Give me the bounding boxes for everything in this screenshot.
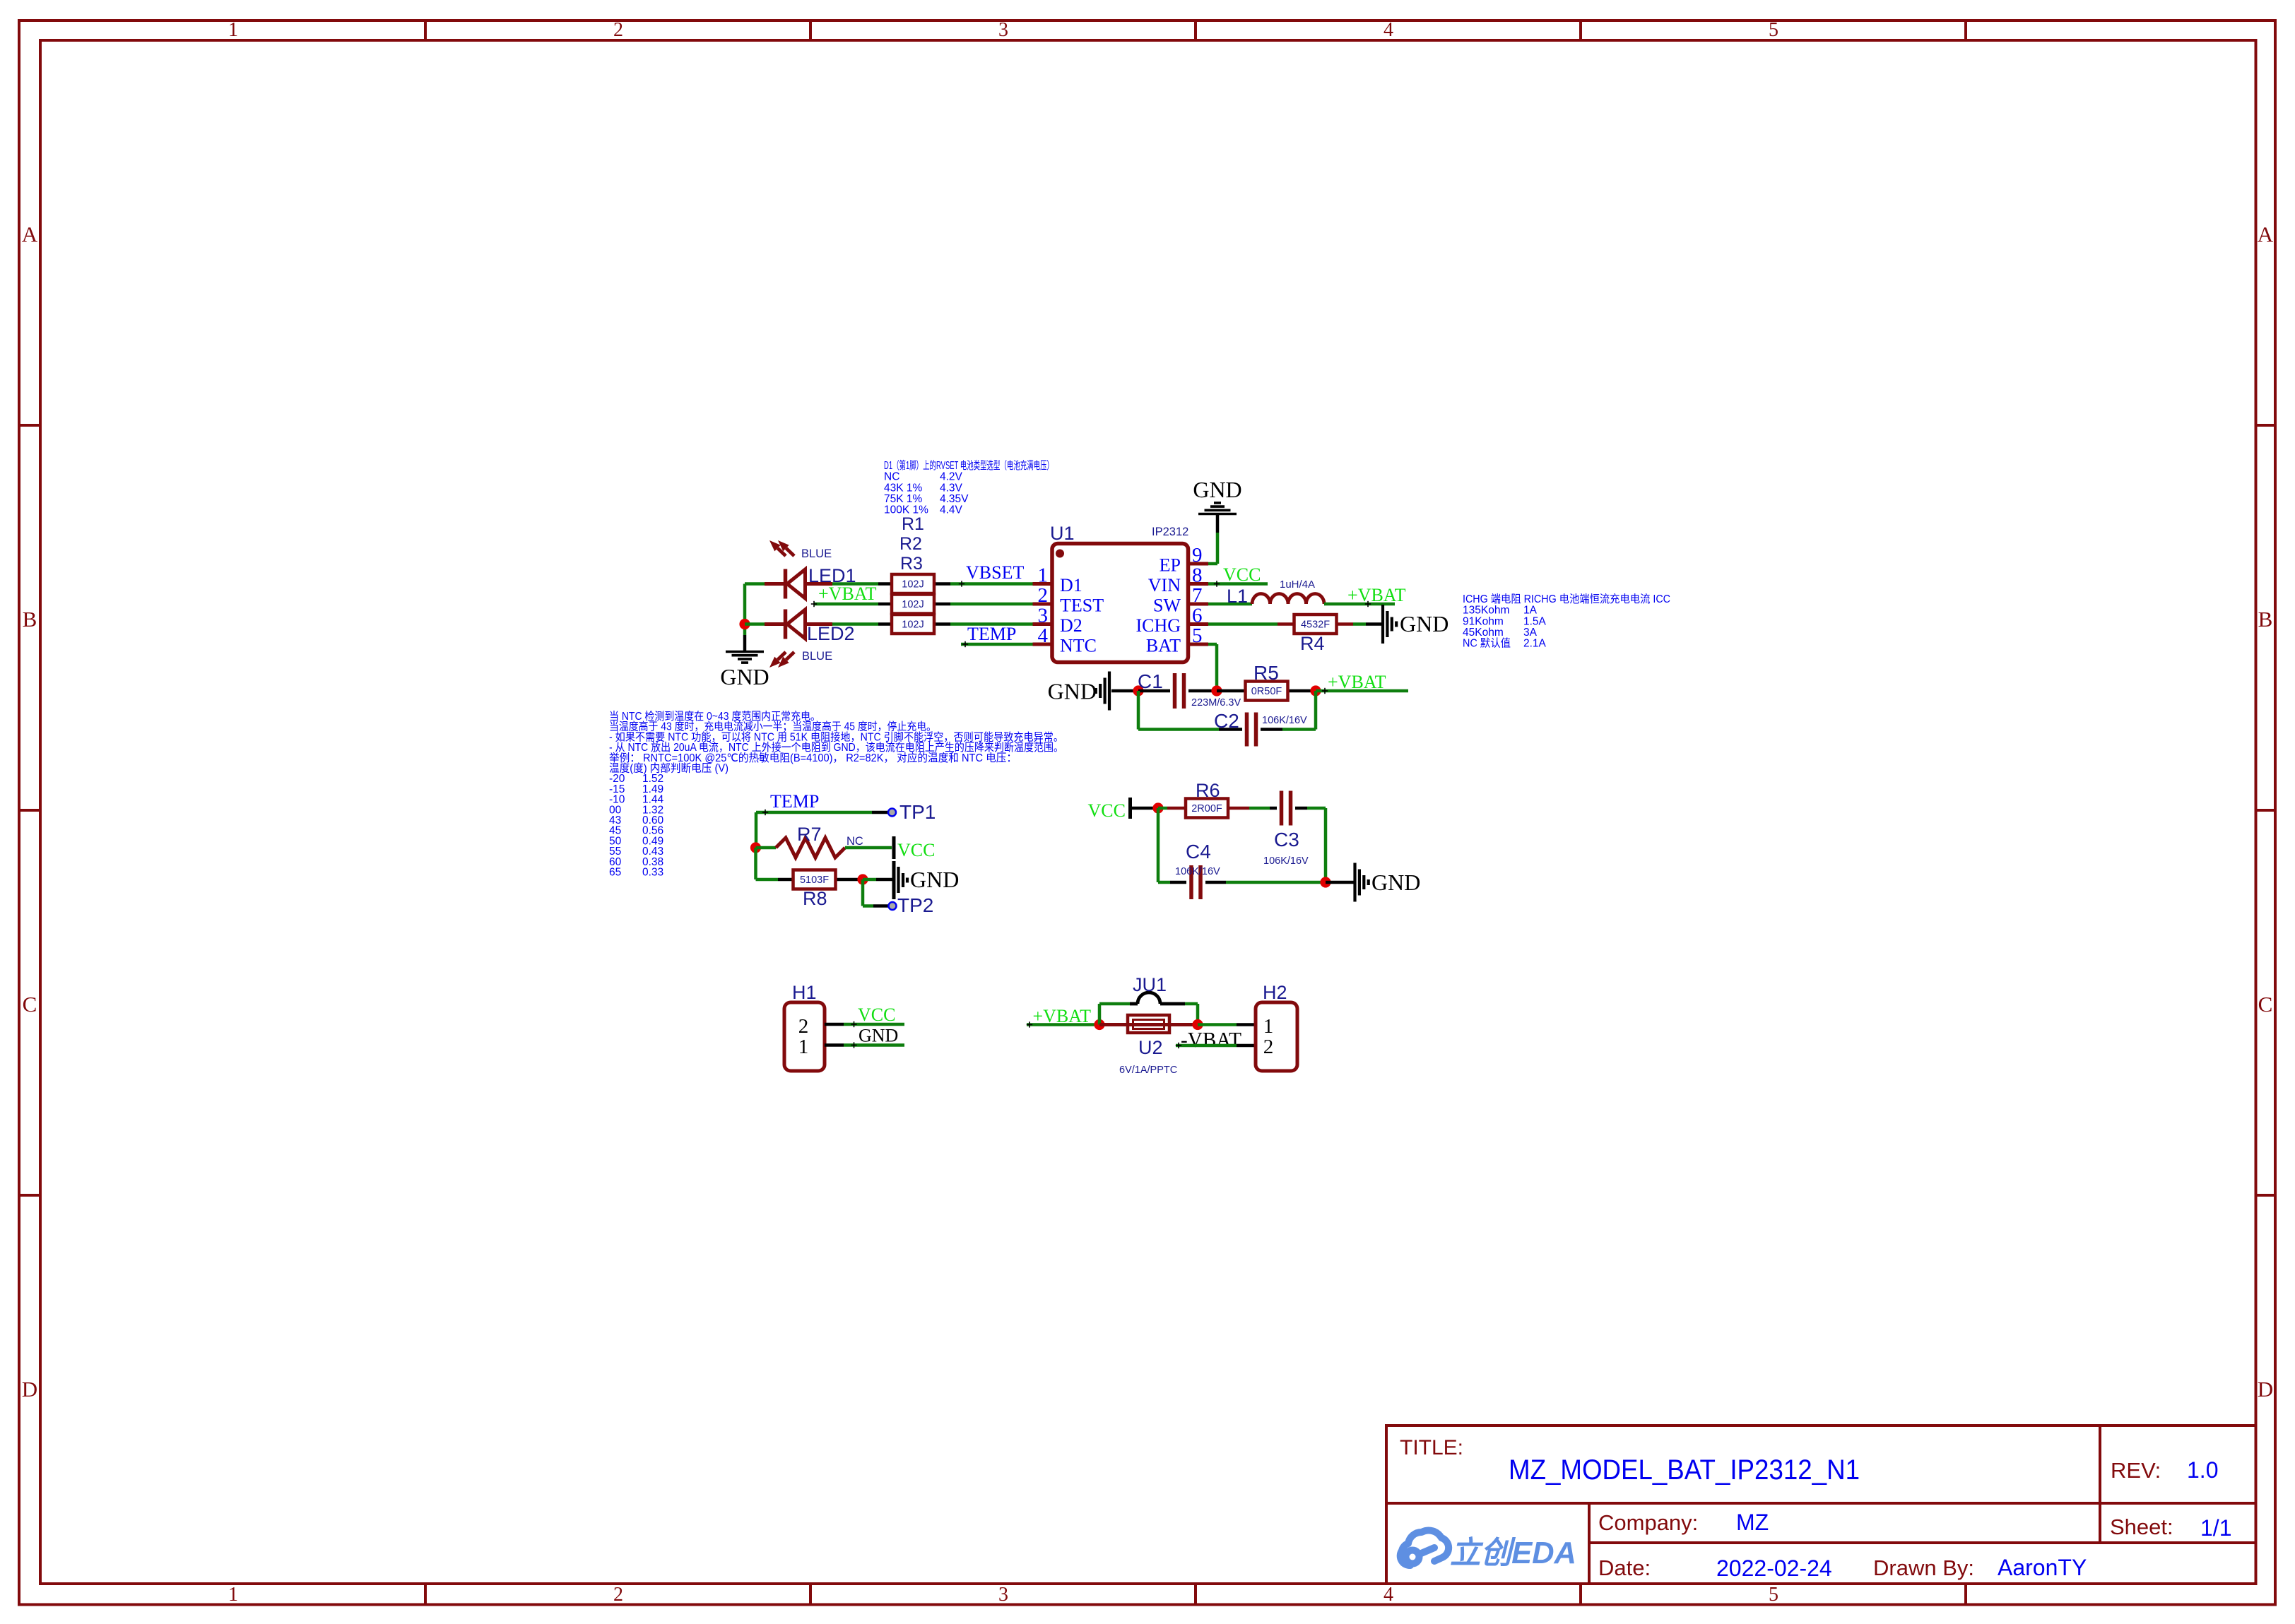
- svg-text:R5: R5: [1253, 662, 1279, 684]
- resistor R1 102J: [878, 574, 950, 593]
- net +VBAT wire into R2: [811, 601, 878, 607]
- svg-text:4: 4: [1038, 624, 1049, 647]
- wire R2 to U1 pin 2: [950, 603, 1033, 606]
- svg-text:MZ: MZ: [1736, 1510, 1769, 1535]
- junction U2 left / JU1 left: [1094, 1019, 1104, 1030]
- svg-text:102J: 102J: [902, 599, 924, 610]
- svg-text:2: 2: [798, 1015, 809, 1038]
- wire U2 to H2 pin 1: [1198, 1023, 1256, 1026]
- wire C3 to GND corner: [1307, 808, 1326, 882]
- svg-text:1/1: 1/1: [2200, 1515, 2231, 1541]
- svg-text:102J: 102J: [902, 620, 924, 631]
- svg-text:4532F: 4532F: [1301, 620, 1330, 631]
- svg-text:D1（第1脚）上的RVSET 电池类型选型（电池充满电压）: D1（第1脚）上的RVSET 电池类型选型（电池充满电压）: [884, 459, 1054, 472]
- capacitor C2 106K/16V: [1219, 713, 1282, 747]
- svg-text:1: 1: [798, 1036, 809, 1058]
- logo LCEDA (cloud + text): [1400, 1531, 1576, 1570]
- svg-text:MZ_MODEL_BAT_IP2312_N1: MZ_MODEL_BAT_IP2312_N1: [1509, 1454, 1860, 1486]
- svg-text:106K/16V: 106K/16V: [1175, 866, 1220, 877]
- svg-text:0R50F: 0R50F: [1251, 686, 1282, 697]
- junction R5 right / C2 right / +VBAT: [1310, 685, 1321, 696]
- svg-text:4: 4: [1384, 19, 1393, 41]
- svg-text:D1: D1: [1060, 575, 1082, 595]
- svg-text:3: 3: [1038, 605, 1049, 627]
- svg-text:VIN: VIN: [1148, 575, 1181, 595]
- wire U1 pin 9 to GND (up): [1208, 533, 1217, 564]
- svg-text:EP: EP: [1160, 555, 1181, 576]
- U1 pin 7 (SW): [1153, 584, 1208, 616]
- test point TP2: [873, 902, 897, 910]
- svg-text:C2: C2: [1214, 710, 1239, 732]
- svg-text:+VBAT: +VBAT: [1347, 585, 1406, 605]
- svg-text:5103F: 5103F: [800, 875, 829, 886]
- ground GND above U1 (earth symbol, flipped): [1193, 477, 1241, 533]
- LED LED1 (blue LED, cathode to GND rail): [745, 540, 832, 599]
- wire C4 branch: [1158, 808, 1326, 882]
- resistor R8 5103F: [756, 870, 863, 889]
- svg-text:GND: GND: [1400, 611, 1449, 636]
- svg-text:4.4V: 4.4V: [940, 504, 963, 516]
- U1 pin 9 (EP): [1160, 544, 1208, 576]
- svg-text:REV:: REV:: [2111, 1458, 2161, 1483]
- svg-text:106K/16V: 106K/16V: [1262, 715, 1307, 726]
- svg-text:C3: C3: [1274, 829, 1299, 850]
- svg-text:5: 5: [1769, 1584, 1778, 1606]
- resistor R5 0R50F: [1217, 682, 1316, 701]
- svg-text:8: 8: [1192, 564, 1203, 587]
- svg-text:102J: 102J: [902, 579, 924, 591]
- svg-text:GND: GND: [1371, 870, 1420, 895]
- wire H2 pin 2 (net -VBAT): [1176, 1043, 1256, 1048]
- junction R8 right / TP2: [857, 874, 868, 884]
- svg-text:2: 2: [613, 19, 623, 41]
- U1 pin 3 (D2): [1033, 605, 1082, 636]
- U1 pin 2 (TEST): [1033, 584, 1104, 616]
- svg-text:温度(度) 内部判断电压 (V): 温度(度) 内部判断电压 (V): [609, 762, 728, 775]
- power flag VCC at R6 (bar): [1131, 798, 1159, 819]
- junction BAT net at C1/R5: [1211, 685, 1222, 696]
- svg-text:TEMP: TEMP: [967, 624, 1016, 644]
- svg-text:SW: SW: [1153, 595, 1181, 616]
- svg-text:5: 5: [1769, 19, 1778, 41]
- note NTC usage text block (blue): [609, 710, 1063, 879]
- svg-text:Company:: Company:: [1598, 1510, 1698, 1535]
- svg-text:JU1: JU1: [1133, 974, 1167, 995]
- junction C3/C4 GND node: [1320, 877, 1331, 887]
- resistor R2 102J: [878, 595, 950, 614]
- ground GND right of R4 (fork symbol): [1366, 605, 1449, 644]
- wire H1 pin2 (net VCC): [844, 1021, 904, 1027]
- svg-text:1.0: 1.0: [2187, 1457, 2218, 1483]
- svg-text:+VBAT: +VBAT: [818, 583, 877, 604]
- wire R4 to GND: [1353, 622, 1366, 626]
- svg-text:2.1A: 2.1A: [1523, 638, 1547, 650]
- svg-text:3A: 3A: [1523, 627, 1538, 639]
- svg-text:C: C: [2258, 992, 2273, 1017]
- ground GND below LEDs (earth symbol): [720, 635, 769, 689]
- note ICHG resistor table (blue): [1463, 593, 1670, 650]
- svg-text:GND: GND: [1048, 679, 1097, 704]
- svg-text:TEST: TEST: [1060, 595, 1104, 616]
- test point TP1: [872, 809, 896, 817]
- svg-text:6: 6: [1192, 605, 1203, 627]
- title Sheet label/value: [2110, 1515, 2231, 1541]
- svg-text:A: A: [22, 222, 38, 247]
- wire L1 to +VBAT: [1324, 601, 1395, 607]
- svg-text:C: C: [23, 992, 37, 1017]
- svg-text:3: 3: [998, 19, 1008, 41]
- wire junction down to R8 row: [754, 848, 757, 879]
- svg-text:2: 2: [1263, 1036, 1274, 1058]
- svg-text:Sheet:: Sheet:: [2110, 1515, 2173, 1539]
- wire +VBAT at R5: [1316, 688, 1408, 694]
- svg-text:1: 1: [228, 1584, 238, 1606]
- svg-text:91Kohm: 91Kohm: [1463, 615, 1504, 627]
- fuse U2 6V/1A/PPTC (PPTC): [1099, 1015, 1198, 1033]
- U1 pin 6 (ICHG): [1135, 605, 1208, 636]
- capacitor C1 223M/6.3V: [1138, 673, 1217, 709]
- wire GND rail left of LEDs (vertical): [743, 584, 747, 636]
- svg-text:B: B: [23, 607, 37, 632]
- svg-text:NC: NC: [884, 471, 899, 483]
- wire U1 pin 5 down to BAT rail: [1208, 644, 1217, 691]
- svg-text:+VBAT: +VBAT: [1328, 672, 1386, 692]
- svg-text:9: 9: [1192, 544, 1203, 567]
- U1 pin 8 (VIN): [1148, 564, 1208, 596]
- connector H1 (2-pin header): [784, 1002, 844, 1071]
- wire C2 branch (lower loop): [1138, 691, 1316, 730]
- svg-text:TITLE:: TITLE:: [1400, 1436, 1463, 1459]
- svg-text:R8: R8: [803, 888, 827, 909]
- svg-text:75K 1%: 75K 1%: [884, 493, 923, 505]
- svg-text:223M/6.3V: 223M/6.3V: [1191, 697, 1241, 709]
- wire R1 to U1 pin 1 (net VBSET): [950, 581, 1033, 586]
- ground GND right of R8 (fork symbol): [876, 861, 959, 899]
- svg-text:45Kohm: 45Kohm: [1463, 627, 1504, 639]
- resistor R3 102J: [878, 615, 950, 634]
- svg-text:R4: R4: [1300, 633, 1325, 654]
- wire R6 to C3: [1249, 807, 1270, 810]
- wire LED1 anode to R1: [832, 582, 878, 586]
- LED LED2 (blue LED, cathode to GND rail): [745, 610, 832, 668]
- svg-text:1.5A: 1.5A: [1523, 615, 1547, 627]
- U1 pin 4 (NTC): [1033, 624, 1097, 656]
- svg-text:VCC: VCC: [1223, 564, 1261, 585]
- ground GND right of C3/C4 (fork symbol): [1326, 863, 1420, 902]
- svg-text:U1: U1: [1050, 523, 1075, 544]
- svg-text:4.35V: 4.35V: [940, 493, 969, 505]
- svg-text:106K/16V: 106K/16V: [1263, 855, 1309, 867]
- svg-text:5: 5: [1192, 624, 1203, 647]
- svg-text:1: 1: [1038, 564, 1049, 587]
- svg-text:D: D: [2258, 1377, 2273, 1401]
- wire +VBAT into U2/JU1: [1027, 1021, 1099, 1027]
- wire U1 pin 6 to R4: [1208, 622, 1278, 626]
- svg-text:1: 1: [1263, 1015, 1274, 1038]
- svg-text:VBSET: VBSET: [966, 562, 1024, 583]
- svg-text:R1: R1: [902, 514, 924, 534]
- resistor R4 4532F: [1278, 615, 1353, 634]
- svg-text:L1: L1: [1227, 586, 1248, 607]
- inductor L1 1uH/4A: [1252, 594, 1324, 605]
- svg-text:43K 1%: 43K 1%: [884, 482, 923, 494]
- wire TEMP net to TP1: [756, 810, 872, 848]
- title block: [1386, 1426, 2256, 1584]
- svg-text:65: 65: [609, 867, 621, 879]
- svg-text:NTC: NTC: [1060, 636, 1097, 656]
- svg-text:H2: H2: [1263, 982, 1287, 1003]
- svg-text:ICHG: ICHG: [1135, 615, 1181, 636]
- ground GND left of C1 (fork symbol): [1048, 672, 1138, 711]
- svg-text:B: B: [2258, 607, 2273, 632]
- note RVSET battery-type table (blue): [884, 459, 1054, 516]
- wire R3 to U1 pin 3: [950, 622, 1033, 626]
- svg-text:D: D: [22, 1377, 37, 1401]
- wire H1 pin1 (net GND): [844, 1042, 904, 1048]
- svg-text:2: 2: [613, 1584, 623, 1606]
- wire to U1 pin 4 (net TEMP): [961, 641, 1033, 647]
- svg-text:NC 默认值: NC 默认值: [1463, 637, 1511, 650]
- svg-text:IP2312: IP2312: [1152, 526, 1188, 538]
- svg-text:7: 7: [1192, 584, 1203, 607]
- svg-text:C1: C1: [1138, 670, 1163, 692]
- title Drawn By label/value: [1873, 1555, 2087, 1580]
- svg-text:GND: GND: [720, 664, 769, 689]
- svg-text:4.3V: 4.3V: [940, 482, 963, 494]
- power flag VCC at R7 (bar): [892, 836, 896, 859]
- svg-text:GND: GND: [910, 867, 959, 892]
- svg-text:2022-02-24: 2022-02-24: [1716, 1555, 1832, 1581]
- wire TP2 branch: [863, 879, 873, 906]
- title Company label/value: [1598, 1510, 1769, 1535]
- U1 pin 1 (D1): [1033, 564, 1082, 596]
- svg-text:R2: R2: [899, 534, 922, 554]
- svg-text:3: 3: [998, 1584, 1008, 1606]
- svg-text:2: 2: [1038, 584, 1049, 607]
- svg-text:ICHG 端电阻 RICHG 电池端恒流充电电流 ICC: ICHG 端电阻 RICHG 电池端恒流充电电流 ICC: [1463, 593, 1670, 605]
- svg-text:U2: U2: [1138, 1037, 1163, 1058]
- svg-text:BLUE: BLUE: [802, 650, 832, 663]
- svg-text:TP2: TP2: [897, 894, 933, 916]
- svg-text:-VBAT: -VBAT: [1181, 1027, 1241, 1052]
- svg-text:R7: R7: [797, 824, 822, 845]
- svg-text:C4: C4: [1186, 841, 1211, 863]
- svg-text:R3: R3: [900, 554, 923, 574]
- svg-text:R6: R6: [1196, 780, 1220, 801]
- wire U1 pin 8 (net VCC): [1208, 581, 1268, 586]
- capacitor C4 106K/16V: [1170, 865, 1226, 899]
- svg-text:TEMP: TEMP: [770, 791, 819, 812]
- wire LED2 anode to R3: [832, 622, 878, 626]
- svg-text:6V/1A/PPTC: 6V/1A/PPTC: [1119, 1065, 1177, 1076]
- svg-text:2R00F: 2R00F: [1191, 803, 1222, 814]
- svg-text:Date:: Date:: [1598, 1555, 1651, 1580]
- svg-text:Drawn By:: Drawn By:: [1873, 1555, 1974, 1580]
- resistor R7 (zigzag, NC): [756, 838, 892, 858]
- svg-text:D2: D2: [1060, 615, 1082, 636]
- jumper JU1 (arc): [1099, 992, 1198, 1025]
- junction VCC/R6/C4 node: [1152, 802, 1163, 813]
- svg-text:VCC: VCC: [858, 1004, 895, 1025]
- svg-text:GND: GND: [1193, 477, 1241, 502]
- svg-text:NC: NC: [846, 835, 863, 848]
- wire U1 pin 7 to L1: [1208, 603, 1252, 606]
- capacitor C3 106K/16V: [1270, 791, 1307, 826]
- svg-text:A: A: [2258, 222, 2274, 247]
- svg-text:GND: GND: [859, 1026, 898, 1046]
- wire R8 to GND fork: [863, 878, 876, 882]
- svg-text:LED2: LED2: [807, 623, 855, 644]
- title Date label/value: [1598, 1555, 1832, 1581]
- svg-text:1A: 1A: [1523, 605, 1538, 617]
- svg-text:1: 1: [228, 19, 238, 41]
- svg-text:H1: H1: [792, 982, 817, 1003]
- title REV label/value: [2111, 1457, 2218, 1483]
- svg-text:135Kohm: 135Kohm: [1463, 605, 1509, 617]
- IC U1 IP2312 body: [1052, 544, 1188, 663]
- junction U2 right / JU1 right / H2 pin1: [1192, 1019, 1203, 1030]
- U1 pin 5 (BAT): [1146, 624, 1208, 656]
- connector H2 (2-pin header): [1256, 1002, 1297, 1071]
- svg-text:BLUE: BLUE: [801, 547, 832, 560]
- svg-text:0.33: 0.33: [642, 867, 663, 879]
- svg-text:1uH/4A: 1uH/4A: [1280, 579, 1315, 591]
- svg-text:立创EDA: 立创EDA: [1450, 1536, 1576, 1570]
- junction C1-left / C2 branch: [1133, 685, 1143, 696]
- resistor R6 2R00F: [1158, 799, 1249, 818]
- svg-text:4.2V: 4.2V: [940, 471, 963, 483]
- svg-text:BAT: BAT: [1146, 636, 1181, 656]
- svg-text:VCC: VCC: [1088, 800, 1126, 821]
- svg-text:+VBAT: +VBAT: [1032, 1006, 1091, 1026]
- svg-text:AaronTY: AaronTY: [1998, 1555, 2087, 1580]
- junction TEMP/R7/R8 node: [750, 842, 761, 853]
- svg-text:VCC: VCC: [897, 840, 935, 860]
- svg-text:TP1: TP1: [899, 801, 936, 823]
- svg-text:4: 4: [1384, 1584, 1393, 1606]
- junction at LED cathodes / GND rail: [739, 619, 750, 629]
